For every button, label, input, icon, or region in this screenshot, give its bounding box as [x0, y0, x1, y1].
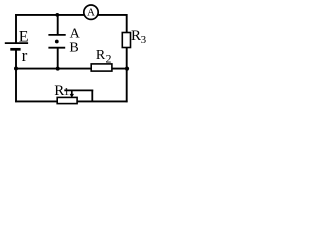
svg-text:R: R: [131, 28, 141, 44]
svg-text:A: A: [87, 7, 95, 19]
svg-text:1: 1: [64, 86, 69, 98]
svg-text:A: A: [70, 26, 81, 41]
svg-text:2: 2: [106, 51, 112, 65]
svg-text:R: R: [96, 48, 106, 63]
svg-text:3: 3: [141, 34, 147, 46]
svg-text:B: B: [69, 40, 78, 55]
svg-text:r: r: [22, 46, 28, 65]
svg-text:E: E: [19, 29, 29, 46]
